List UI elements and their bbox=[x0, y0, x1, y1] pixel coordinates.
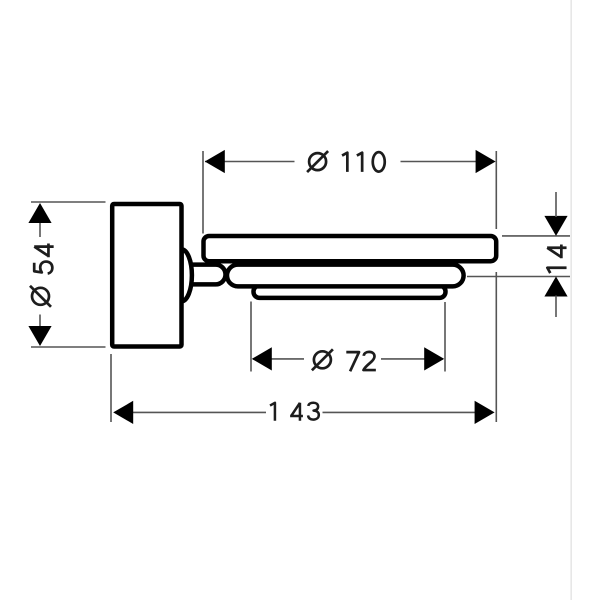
dimension 143 line right segment bbox=[323, 411, 493, 413]
O72 diameter symbol bbox=[312, 349, 333, 370]
dimension O110 extension line left bbox=[202, 151, 204, 234]
dimension O54 extension line top bbox=[31, 201, 106, 203]
dimension 14 arrow down stem bbox=[555, 192, 557, 217]
dimension 14 line top bbox=[502, 235, 570, 237]
O110 diameter symbol bbox=[307, 151, 328, 172]
dimension 14 arrow up bbox=[544, 277, 567, 297]
dimension O72 extension line left bbox=[250, 302, 252, 372]
dimension 14 arrow up stem bbox=[555, 296, 557, 318]
dimension 143 arrow left bbox=[113, 401, 133, 424]
dimension O72 extension line right bbox=[444, 302, 446, 372]
dimension O54 line bottom segment bbox=[39, 315, 41, 345]
O110 value digits 110 bbox=[342, 152, 385, 172]
dimension O54 line top segment bbox=[39, 205, 41, 238]
dimension O110 arrow left bbox=[205, 150, 225, 173]
dimension 14 line bottom bbox=[467, 276, 570, 278]
dimension O72 line right segment bbox=[381, 358, 443, 360]
dimension 143 extension line left bbox=[110, 354, 112, 422]
dimension O110 line right segment bbox=[401, 161, 495, 163]
escutcheon bump bbox=[182, 249, 192, 301]
dimension O110 arrow right bbox=[476, 150, 496, 173]
soap dish bottom ring bbox=[254, 286, 446, 298]
dimension 143 extension line right bbox=[495, 272, 497, 422]
dimension O72 arrow right bbox=[424, 347, 444, 370]
support arm bbox=[180, 265, 226, 285]
dimension O72 arrow left bbox=[252, 347, 272, 370]
dimension O54 arrow up bbox=[28, 203, 51, 223]
14 value digits rotated bbox=[547, 245, 566, 273]
O54 value digits 54 rotated bbox=[34, 243, 53, 273]
wall plate bbox=[112, 204, 181, 347]
dimension O54 extension line bottom bbox=[31, 346, 106, 348]
O72 value digits bbox=[346, 352, 376, 371]
dimension 143 arrow right bbox=[475, 401, 495, 424]
O54 diameter symbol bbox=[30, 286, 51, 307]
dimension O110 extension line right bbox=[495, 151, 497, 229]
dimension 143 line left segment bbox=[115, 411, 266, 413]
dimension O72 line left segment bbox=[253, 358, 304, 360]
faint page border line bbox=[570, 0, 572, 600]
dimension 14 arrow down bbox=[544, 216, 567, 236]
dimension O110 line left segment bbox=[205, 161, 295, 163]
soap dish top plate bbox=[204, 236, 497, 261]
dimension O54 arrow down bbox=[28, 326, 51, 346]
143 value digits bbox=[270, 403, 319, 421]
soap dish middle bowl bbox=[227, 265, 464, 287]
